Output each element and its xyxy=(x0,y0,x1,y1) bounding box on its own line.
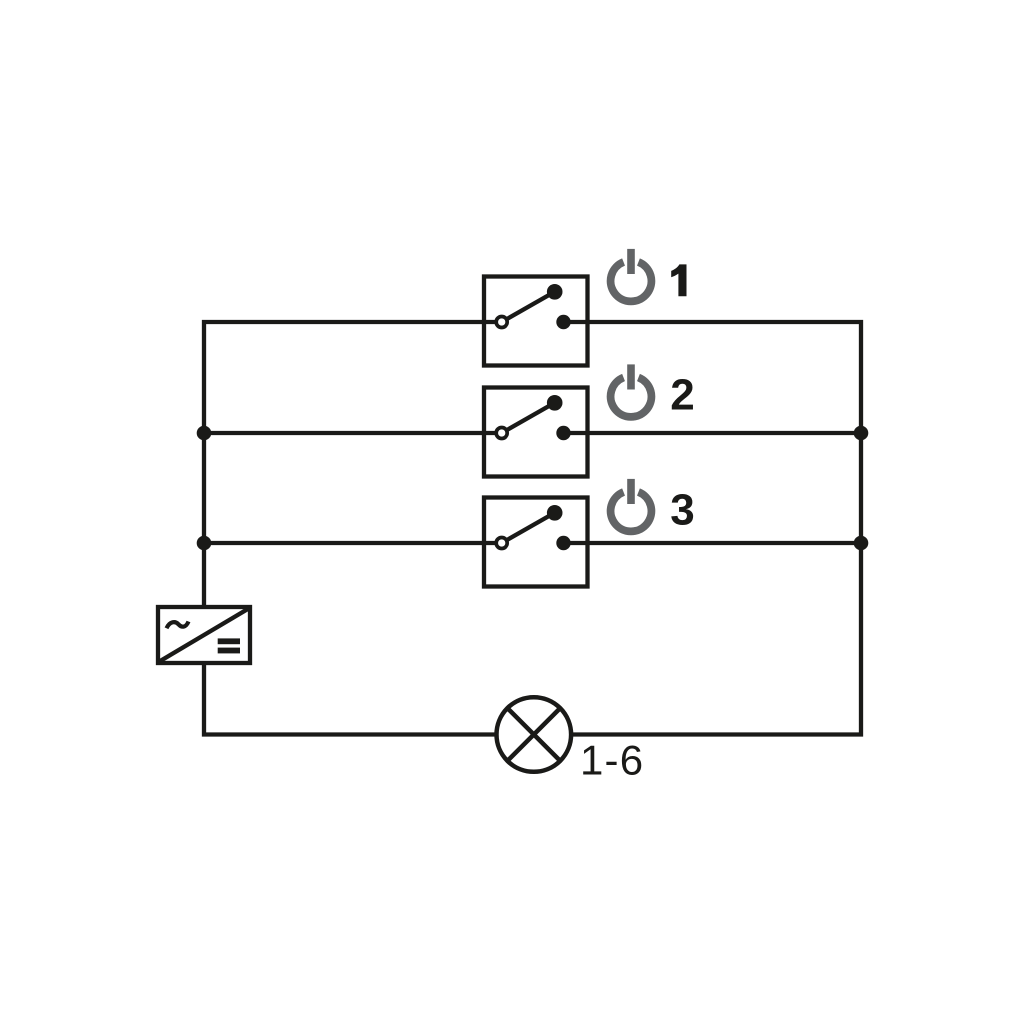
wire: row-2 left segment xyxy=(204,431,502,435)
wire: bottom left segment + left rail below converter xyxy=(204,663,498,735)
svg-text:2: 2 xyxy=(670,371,694,420)
junction left row-3 xyxy=(197,536,212,551)
lamp E1 cross stroke 1 xyxy=(507,708,560,761)
junction right row-3 xyxy=(854,536,869,551)
power icon 1 ring xyxy=(611,262,652,301)
wire: row-2 right segment xyxy=(564,431,862,435)
switch S1 right contact dot xyxy=(556,315,570,329)
label 1 xyxy=(671,264,686,296)
switch S3 box xyxy=(484,498,588,587)
lamp E1 cross stroke 2 xyxy=(507,708,560,761)
switch S2 pivot (open circle) xyxy=(496,428,507,439)
switch S2 lever xyxy=(502,403,555,433)
switch S1 pivot (open circle) xyxy=(496,317,507,328)
power icon 1 bar xyxy=(627,249,635,274)
power icon 2 ring xyxy=(611,378,652,417)
switch S3 right contact dot xyxy=(556,536,570,550)
switch S3 lever xyxy=(502,513,555,543)
converter U1 DC bar top xyxy=(218,638,240,644)
converter U1 box xyxy=(158,607,250,663)
switch S3 upper contact dot xyxy=(547,505,563,521)
wire: row-3 left segment xyxy=(204,541,502,545)
junction left row-2 xyxy=(197,426,212,441)
svg-text:1-6: 1-6 xyxy=(580,737,644,784)
converter U1 AC tilde xyxy=(167,622,189,629)
switch S1 lever xyxy=(502,292,555,322)
power icon 3 bar xyxy=(627,479,635,504)
converter U1 diagonal xyxy=(159,608,250,662)
wire: row-3 right segment xyxy=(564,541,862,545)
lamp E1 circle xyxy=(497,697,572,772)
wire: row-1 right segment + right rail + bottom right segment xyxy=(564,322,862,735)
junction right row-2 xyxy=(854,426,869,441)
switch S2 right contact dot xyxy=(556,426,570,440)
converter U1 DC bar bottom xyxy=(218,648,240,654)
switch S3 pivot (open circle) xyxy=(496,538,507,549)
power icon 3 ring xyxy=(611,492,652,531)
switch S2 upper contact dot xyxy=(547,395,563,411)
switch S1 upper contact dot xyxy=(547,284,563,300)
wire: left rail top + row-1 left segment xyxy=(204,322,502,605)
svg-text:3: 3 xyxy=(670,486,694,535)
power icon 2 bar xyxy=(627,364,635,389)
switch S1 box xyxy=(484,277,588,366)
switch S2 box xyxy=(484,388,588,477)
